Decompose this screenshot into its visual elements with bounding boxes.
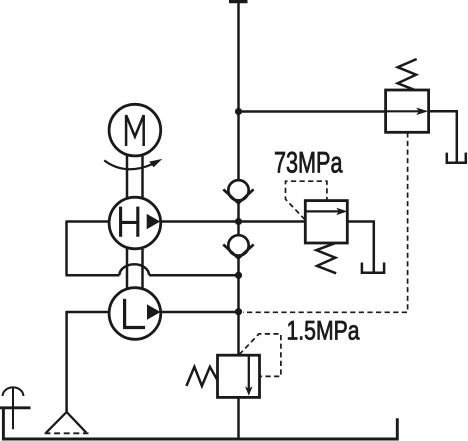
wire: pilot tap to unloading valve [239, 110, 386, 113]
wire: suction line down to strainer [65, 311, 68, 413]
pilot line (dashed) V2 vent loop [286, 181, 327, 219]
pump shaft lower [127, 249, 143, 288]
pump L (low pressure stage) [109, 288, 161, 340]
node: crossover-line junction [235, 272, 242, 279]
reservoir tank [0, 408, 397, 439]
wire: left drop from H inlet [65, 221, 68, 276]
wire: H outlet to main line [160, 220, 239, 223]
pilot line (dashed) from unloader to L-outlet node [243, 132, 408, 312]
breather / filler cap [3, 387, 24, 429]
wire: between check valves [237, 203, 240, 236]
relief valve V3 spring [186, 367, 217, 386]
node: CV1/H-outlet junction [235, 218, 242, 225]
unloading valve arrow [386, 110, 420, 112]
relief valve V2 spring [316, 243, 336, 273]
relief valve V2 (73MPa) [305, 201, 347, 243]
svg-text:73MPa: 73MPa [274, 147, 343, 180]
wire: main outlet line top tick [229, 0, 248, 3]
rotation direction arrow [104, 159, 162, 169]
tank symbol (V2 drain) [362, 263, 384, 273]
wire: relief V2 outlet to drain [347, 222, 374, 273]
unloading valve spring [398, 59, 417, 90]
electric motor M1 [109, 104, 161, 156]
wire: L inlet left [67, 311, 110, 314]
suction strainer [45, 412, 89, 433]
wire: crossover line to main (hop over shaft) [66, 274, 239, 277]
wire: main vertical line, top segment [237, 1, 240, 180]
pilot line (dashed) V3 vent loop [239, 334, 281, 377]
tank symbol (unloader drain) [447, 153, 466, 163]
wire: crossover hop arc [119, 264, 149, 275]
wire: main line below V3 to tank [237, 397, 240, 438]
svg-text:1.5MPa: 1.5MPa [287, 316, 360, 346]
check valve CV1 [223, 180, 253, 203]
wire: H inlet left [67, 220, 110, 223]
letter H [121, 207, 138, 237]
pump H (high pressure stage) [109, 197, 161, 249]
letter L [125, 299, 145, 328]
check valve CV2 [223, 235, 253, 258]
relief valve V3 arrow [248, 355, 250, 389]
pump H outlet triangle [147, 214, 161, 229]
pump L outlet triangle [147, 304, 161, 319]
wire: node to relief valve V2 [239, 220, 306, 223]
wire: unloading valve outlet to drain [429, 111, 457, 162]
relief valve V3 (1.5MPa) [218, 355, 260, 397]
node: L-outlet / pilot junction [235, 308, 242, 315]
relief valve V2 arrow [305, 210, 339, 212]
motor shaft upper [127, 156, 143, 198]
unloading valve V1 (top right) [386, 90, 429, 132]
node: unloader pilot junction [235, 108, 242, 115]
wire: main vertical below CV2 to 1.5MPa valve [237, 258, 240, 355]
wire: L outlet to main line [160, 311, 239, 314]
